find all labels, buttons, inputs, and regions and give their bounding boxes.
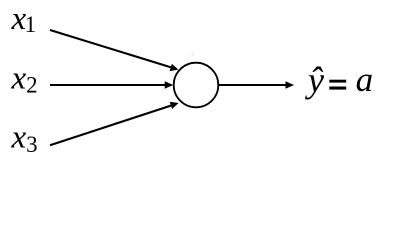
- wire arrow from x2 to neuron: [50, 81, 173, 89]
- output wire arrow: [219, 81, 295, 89]
- faint artifact dot: [192, 52, 194, 56]
- svg-text:a: a: [356, 60, 374, 99]
- wire arrow from x1 to neuron: [50, 30, 178, 71]
- equals sign: [329, 80, 346, 83]
- neuron circle: [174, 63, 219, 108]
- svg-text:ŷ: ŷ: [305, 60, 324, 100]
- wire arrow from x3 to neuron: [50, 102, 179, 146]
